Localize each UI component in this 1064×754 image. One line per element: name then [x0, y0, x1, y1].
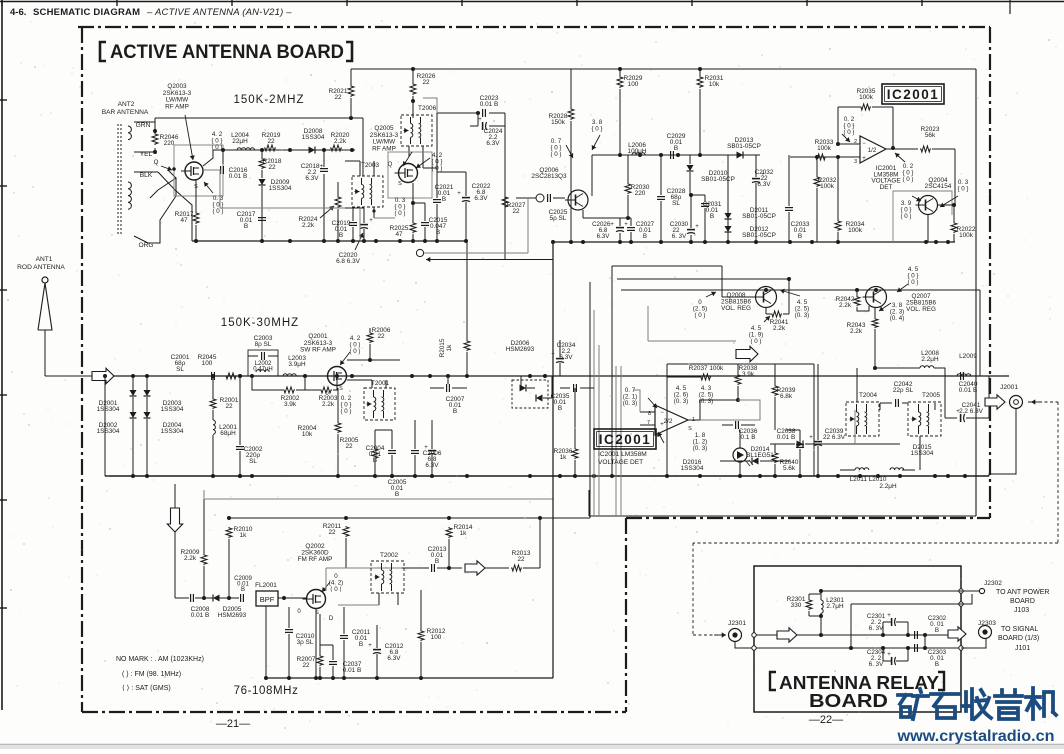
svg-text:22: 22: [267, 138, 275, 145]
svg-text:6.8 6.3V: 6.8 6.3V: [336, 258, 361, 265]
svg-text:BOARD (1/3): BOARD (1/3): [998, 635, 1039, 642]
svg-text:2.2μH: 2.2μH: [921, 356, 939, 363]
svg-text:100k: 100k: [848, 227, 863, 234]
svg-text:S: S: [688, 426, 692, 432]
svg-text:6.3V: 6.3V: [474, 195, 488, 202]
svg-text:(0. 3): (0. 3): [623, 400, 637, 407]
svg-text:4-6.: 4-6.: [10, 7, 26, 18]
svg-text:47: 47: [395, 231, 403, 238]
svg-text:150K-30MHZ: 150K-30MHZ: [221, 317, 299, 329]
svg-text:1SS304: 1SS304: [302, 134, 325, 141]
svg-text:76-108MHz: 76-108MHz: [234, 685, 299, 697]
svg-text:0.01 B: 0.01 B: [191, 612, 209, 619]
svg-text:www.crystalradio.cn: www.crystalradio.cn: [896, 728, 1054, 745]
svg-text:6.3V: 6.3V: [305, 175, 319, 182]
svg-text:2.2k: 2.2k: [184, 555, 197, 562]
svg-text:J2302: J2302: [984, 580, 1002, 587]
svg-text:Q: Q: [154, 159, 159, 166]
svg-text:J101: J101: [1015, 645, 1030, 652]
svg-text:{ 0 }: { 0 }: [591, 126, 602, 133]
svg-text:10k: 10k: [709, 81, 720, 88]
svg-text:+: +: [478, 117, 482, 123]
svg-text:3ρ SL: 3ρ SL: [297, 639, 314, 646]
svg-text:22: 22: [422, 79, 430, 86]
svg-text:L2009: L2009: [959, 353, 977, 360]
svg-text:—22—: —22—: [809, 714, 843, 726]
svg-text:B: B: [373, 457, 377, 464]
svg-text:ROD ANTENNA: ROD ANTENNA: [17, 264, 65, 271]
svg-text:( 0 ): ( 0 ): [349, 348, 360, 355]
svg-text:B: B: [244, 223, 248, 230]
svg-text:220: 220: [164, 140, 175, 147]
svg-text:Q: Q: [388, 162, 393, 168]
svg-text:( 0 ): ( 0 ): [394, 210, 405, 217]
svg-text:(0. 3): (0. 3): [699, 398, 713, 405]
svg-text:B: B: [435, 558, 439, 565]
svg-text:( 0 ): ( 0 ): [212, 208, 223, 215]
svg-text:IC2001 LM358M: IC2001 LM358M: [598, 451, 647, 458]
svg-text:100k: 100k: [817, 145, 832, 152]
svg-text:NO MARK : . AM (1023KHz): NO MARK : . AM (1023KHz): [116, 656, 204, 663]
svg-text:−: −: [660, 410, 664, 416]
svg-text:6.3V: 6.3V: [486, 140, 500, 147]
svg-text:2SC2813Q3: 2SC2813Q3: [531, 173, 567, 180]
svg-text:100: 100: [628, 81, 639, 88]
svg-text:100: 100: [202, 360, 213, 367]
svg-text:RF AMP: RF AMP: [165, 103, 189, 110]
svg-text:FM RF AMP: FM RF AMP: [298, 556, 333, 563]
svg-text:J2001: J2001: [1000, 384, 1018, 391]
svg-text:T2002: T2002: [380, 552, 399, 559]
svg-text:B: B: [453, 408, 457, 415]
svg-text:2.2k: 2.2k: [773, 325, 786, 332]
svg-text:1k: 1k: [446, 344, 453, 352]
svg-text:T2001: T2001: [371, 380, 390, 387]
svg-text:+: +: [862, 156, 866, 162]
svg-text:+: +: [660, 422, 664, 428]
svg-text:0.01 B: 0.01 B: [777, 434, 795, 441]
svg-text:SB01-05CP: SB01-05CP: [742, 213, 776, 220]
svg-text:S: S: [339, 386, 343, 392]
svg-text:1k: 1k: [560, 454, 568, 461]
svg-text:100μH: 100μH: [628, 148, 647, 155]
svg-text:ANTENNA RELAY: ANTENNA RELAY: [779, 673, 939, 693]
svg-text:SB01-05CP: SB01-05CP: [727, 143, 761, 150]
svg-text:6. 3V: 6. 3V: [869, 661, 884, 668]
svg-text:6. 3V: 6. 3V: [869, 625, 884, 632]
svg-text:22ρ SL: 22ρ SL: [893, 387, 914, 394]
svg-text:RF AMP: RF AMP: [372, 145, 396, 152]
svg-text:1k: 1k: [460, 530, 468, 537]
svg-text:B: B: [359, 641, 363, 648]
svg-text:( 0 ): ( 0 ): [694, 312, 705, 319]
svg-text:+: +: [809, 435, 813, 441]
svg-text:+: +: [695, 224, 699, 230]
svg-text:−: −: [862, 141, 866, 147]
svg-text:+: +: [424, 445, 428, 451]
svg-text:B: B: [935, 627, 939, 634]
svg-text:220: 220: [635, 190, 646, 197]
svg-text:6. 3V: 6. 3V: [672, 233, 687, 240]
svg-text:(0. 3): (0. 3): [674, 398, 688, 405]
svg-text:BL1EG51: BL1EG51: [746, 452, 774, 459]
svg-text:2SC4154: 2SC4154: [925, 183, 952, 190]
svg-text:2.2k: 2.2k: [302, 222, 315, 229]
svg-text:B: B: [935, 661, 939, 668]
svg-text:(0. 3): (0. 3): [693, 445, 707, 452]
svg-text:22: 22: [345, 443, 353, 450]
svg-text:2.7μH: 2.7μH: [826, 603, 844, 610]
svg-text:(0. 3): (0. 3): [795, 312, 809, 319]
svg-text:B: B: [339, 232, 343, 239]
svg-text:100k: 100k: [859, 94, 874, 101]
svg-text:1SS304: 1SS304: [161, 428, 184, 435]
svg-text:B: B: [395, 491, 399, 498]
svg-text:22: 22: [302, 662, 310, 669]
svg-text:2.2k: 2.2k: [850, 328, 863, 335]
svg-text:100k: 100k: [959, 232, 974, 239]
svg-text:B: B: [442, 196, 446, 203]
svg-text:( 0 ): ( 0 ): [902, 176, 913, 183]
svg-text:SL: SL: [249, 458, 257, 465]
svg-text:6.3V: 6.3V: [559, 354, 573, 361]
svg-text:BOARD: BOARD: [1010, 598, 1035, 605]
svg-text:1SS304: 1SS304: [97, 428, 120, 435]
svg-text:22: 22: [328, 529, 336, 536]
svg-text:⟨ 0 ⟩: ⟨ 0 ⟩: [330, 586, 342, 593]
svg-text:VOL. REG: VOL. REG: [721, 305, 751, 312]
svg-text:2/2: 2/2: [664, 418, 673, 425]
svg-text:+: +: [887, 652, 891, 658]
svg-text:8ρ SL: 8ρ SL: [255, 341, 272, 348]
svg-text:22 6.3V: 22 6.3V: [823, 434, 846, 441]
svg-text:B: B: [798, 233, 802, 240]
svg-text:TO SIGNAL: TO SIGNAL: [1001, 626, 1038, 633]
svg-text:ANT2: ANT2: [118, 101, 135, 108]
svg-text:B: B: [643, 233, 647, 240]
svg-text:3.9k: 3.9k: [284, 401, 297, 408]
svg-text:HSM2693: HSM2693: [506, 346, 535, 353]
svg-text:J2301: J2301: [728, 620, 746, 627]
svg-text:( 0 ): ( 0 ): [550, 151, 561, 158]
svg-text:22μH: 22μH: [232, 138, 248, 145]
svg-text:2.2μH: 2.2μH: [879, 483, 897, 490]
svg-text:{ 0 }: { 0 }: [957, 186, 968, 193]
svg-text:(0. 4): (0. 4): [890, 315, 904, 322]
svg-text:( 0 ): ( 0 ): [843, 129, 854, 136]
svg-text:0.01 B: 0.01 B: [343, 667, 361, 674]
svg-text:BAR ANTENNA: BAR ANTENNA: [102, 109, 149, 116]
svg-text:+: +: [887, 613, 891, 619]
svg-text:1/2: 1/2: [868, 147, 877, 154]
svg-text:VOLTAGE DET: VOLTAGE DET: [598, 459, 643, 466]
svg-text:SW RF AMP: SW RF AMP: [300, 347, 336, 354]
svg-text:( 0 ): ( 0 ): [750, 338, 761, 345]
svg-text:22: 22: [334, 94, 342, 101]
svg-text:( ) : FM (98. 1MHz): ( ) : FM (98. 1MHz): [122, 671, 181, 678]
svg-text:( 0 ): ( 0 ): [340, 408, 351, 415]
svg-text:T2003: T2003: [361, 162, 380, 169]
svg-text:22: 22: [225, 403, 233, 410]
svg-text:1SS304: 1SS304: [681, 465, 704, 472]
svg-text:68μH: 68μH: [220, 430, 236, 437]
svg-text:0.01 B: 0.01 B: [480, 101, 498, 108]
svg-text:22: 22: [268, 164, 276, 171]
svg-text:HSM2693: HSM2693: [218, 612, 247, 619]
svg-text:B: B: [674, 145, 678, 152]
svg-text:5ρ SL: 5ρ SL: [550, 215, 567, 222]
svg-text:3: 3: [854, 159, 857, 165]
svg-text:⟨ ⟩ : SAT (GMS): ⟨ ⟩ : SAT (GMS): [122, 684, 171, 692]
svg-text:SB01-05CP: SB01-05CP: [742, 232, 776, 239]
svg-text:6.3V: 6.3V: [387, 655, 401, 662]
svg-text:+: +: [368, 643, 372, 649]
svg-text:6.8k: 6.8k: [780, 393, 793, 400]
svg-text:BPF: BPF: [260, 595, 275, 604]
svg-text:1k: 1k: [240, 532, 248, 539]
svg-text:0.01 B: 0.01 B: [959, 387, 977, 394]
svg-text:D: D: [329, 616, 334, 622]
svg-text:+: +: [369, 218, 373, 224]
svg-text:( 0 ): ( 0 ): [907, 279, 918, 286]
svg-text:47: 47: [180, 217, 188, 224]
svg-text:BLK: BLK: [140, 172, 153, 179]
svg-text:IC2001: IC2001: [599, 432, 652, 447]
svg-text:B: B: [241, 587, 245, 593]
svg-text:S: S: [398, 181, 402, 187]
svg-text:T2006: T2006: [418, 105, 437, 112]
svg-text:T2005: T2005: [922, 392, 941, 399]
svg-text:T2004: T2004: [859, 392, 878, 399]
svg-text:GRN: GRN: [136, 122, 151, 129]
svg-text:BOARD: BOARD: [809, 691, 888, 711]
svg-text:L2011 L2010: L2011 L2010: [850, 476, 887, 483]
svg-text:IC2001: IC2001: [887, 87, 940, 102]
svg-text:1SS304: 1SS304: [269, 185, 292, 192]
svg-text:TO ANT POWER: TO ANT POWER: [996, 589, 1049, 596]
svg-text:+: +: [956, 409, 960, 415]
svg-text:22: 22: [377, 333, 385, 340]
svg-text:2.2 6.3V: 2.2 6.3V: [959, 408, 984, 415]
svg-text:SB01-05CP: SB01-05CP: [701, 176, 735, 183]
svg-text:VOL. REG: VOL. REG: [906, 306, 936, 313]
svg-text:56k: 56k: [925, 132, 936, 139]
svg-text:0.01 B: 0.01 B: [229, 173, 247, 180]
svg-text:150K-2MHZ: 150K-2MHZ: [234, 94, 305, 106]
svg-text:5.6k: 5.6k: [783, 465, 796, 472]
svg-text:J103: J103: [1014, 607, 1029, 614]
svg-text:100k: 100k: [820, 183, 835, 190]
svg-text:SL: SL: [176, 366, 184, 373]
svg-text:6.3V: 6.3V: [597, 233, 611, 240]
svg-text:150k: 150k: [551, 119, 566, 126]
svg-text:DET: DET: [880, 184, 893, 191]
svg-text:—21—: —21—: [216, 718, 250, 730]
svg-text:10k: 10k: [302, 431, 313, 438]
svg-text:2.2k: 2.2k: [839, 302, 852, 309]
svg-text:( 0 ): ( 0 ): [900, 213, 911, 220]
svg-text:SCHEMATIC DIAGRAM: SCHEMATIC DIAGRAM: [33, 7, 140, 18]
svg-text:1SS304: 1SS304: [911, 450, 934, 457]
svg-text:0.1 B: 0.1 B: [741, 434, 756, 441]
svg-text:22: 22: [517, 556, 525, 563]
svg-text:22: 22: [512, 208, 520, 215]
svg-text:+: +: [761, 172, 765, 178]
svg-text:3.9μH: 3.9μH: [288, 361, 306, 368]
svg-text:ACTIVE ANTENNA BOARD: ACTIVE ANTENNA BOARD: [110, 41, 344, 63]
svg-text:R2037 100k: R2037 100k: [689, 365, 724, 372]
svg-text:+: +: [457, 191, 461, 197]
svg-text:– ACTIVE ANTENNA (AN-V21) –: – ACTIVE ANTENNA (AN-V21) –: [146, 7, 292, 18]
svg-text:B: B: [710, 213, 714, 220]
svg-text:2.2k: 2.2k: [322, 401, 335, 408]
svg-text:FL2001: FL2001: [255, 582, 277, 589]
svg-text:1SS304: 1SS304: [161, 406, 184, 413]
svg-text:1SS304: 1SS304: [97, 406, 120, 413]
svg-text:100: 100: [431, 634, 442, 641]
svg-text:ANT1: ANT1: [36, 256, 53, 263]
svg-text:3.9k: 3.9k: [742, 371, 755, 378]
svg-text:2.2k: 2.2k: [334, 138, 347, 145]
svg-text:R2015: R2015: [439, 338, 446, 357]
